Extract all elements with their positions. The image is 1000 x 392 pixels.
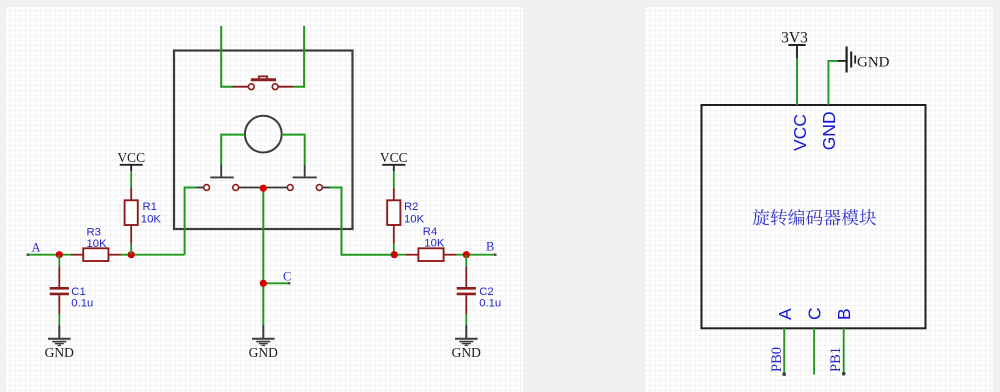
svg-text:B: B bbox=[834, 308, 854, 320]
svg-text:R2: R2 bbox=[404, 201, 418, 213]
svg-text:0.1u: 0.1u bbox=[71, 298, 93, 310]
svg-text:VCC: VCC bbox=[380, 150, 408, 165]
svg-text:10K: 10K bbox=[404, 213, 425, 225]
svg-text:R1: R1 bbox=[143, 201, 157, 213]
svg-text:A: A bbox=[32, 240, 41, 254]
svg-text:GND: GND bbox=[452, 345, 481, 360]
svg-text:VCC: VCC bbox=[790, 114, 810, 151]
svg-text:GND: GND bbox=[45, 345, 74, 360]
svg-text:10K: 10K bbox=[424, 238, 445, 250]
svg-text:C: C bbox=[283, 270, 291, 284]
svg-text:10K: 10K bbox=[141, 213, 162, 225]
svg-text:0.1u: 0.1u bbox=[479, 298, 501, 310]
svg-text:A: A bbox=[775, 308, 795, 320]
svg-text:3V3: 3V3 bbox=[781, 30, 808, 47]
svg-text:PB1: PB1 bbox=[828, 347, 844, 372]
svg-text:B: B bbox=[486, 240, 494, 254]
svg-text:C: C bbox=[805, 307, 825, 320]
svg-text:PB0: PB0 bbox=[769, 347, 785, 372]
svg-text:R4: R4 bbox=[423, 226, 437, 238]
svg-text:10K: 10K bbox=[87, 238, 108, 250]
svg-text:VCC: VCC bbox=[117, 150, 145, 165]
svg-text:GND: GND bbox=[819, 111, 839, 150]
svg-text:GND: GND bbox=[857, 54, 890, 70]
svg-text:C2: C2 bbox=[479, 286, 493, 298]
svg-text:GND: GND bbox=[249, 345, 278, 360]
svg-text:R3: R3 bbox=[87, 227, 101, 239]
svg-text:C1: C1 bbox=[71, 286, 85, 298]
